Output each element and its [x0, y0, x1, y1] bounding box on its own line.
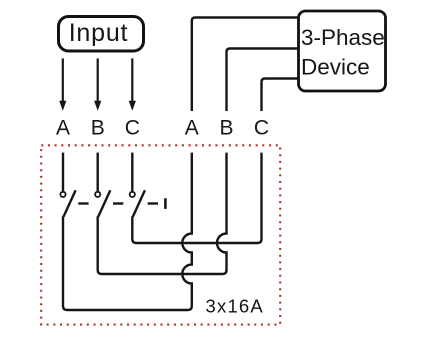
mechanical link end tick: [164, 198, 167, 209]
wire switch S1 output to node A: [63, 216, 192, 310]
wire switch S2 output to node B: [98, 216, 227, 274]
svg-text:3x16A: 3x16A: [206, 296, 264, 317]
breaker enclosure (dotted outline): [41, 145, 280, 324]
mechanical link dash 3: [148, 202, 158, 204]
3-Phase Device box U1: [299, 11, 386, 91]
wire device phase C: [262, 79, 299, 112]
svg-text:Input: Input: [69, 19, 129, 47]
svg-text:B: B: [219, 117, 233, 140]
wire device phase A: [192, 18, 299, 112]
wire device phase B: [227, 49, 299, 112]
arrow input B: [94, 58, 101, 110]
switch S2 pole: [95, 190, 110, 217]
svg-text:A: A: [56, 117, 70, 140]
wire switch S3 output to node C: [132, 216, 261, 243]
wire stub input A to switch S1: [62, 153, 64, 192]
wire node C vertical: [260, 153, 262, 240]
Input box: [59, 17, 144, 52]
wire stub input B to switch S2: [96, 153, 98, 192]
svg-text:A: A: [185, 117, 199, 140]
wire node A vertical with hops: [182, 153, 192, 307]
svg-text:3-Phase: 3-Phase: [301, 25, 385, 50]
svg-text:C: C: [125, 117, 140, 140]
switch S1 pole: [60, 190, 75, 217]
wire stub input C to switch S3: [131, 153, 133, 192]
switch S3 pole: [130, 190, 145, 217]
svg-text:C: C: [254, 117, 269, 140]
mechanical link dash 2: [113, 202, 123, 204]
wire node B vertical with hop: [217, 153, 227, 271]
arrow input C: [129, 58, 136, 110]
svg-text:B: B: [91, 117, 105, 140]
mechanical link dash 1: [78, 202, 88, 204]
svg-text:Device: Device: [301, 54, 370, 79]
arrow input A: [59, 58, 66, 110]
